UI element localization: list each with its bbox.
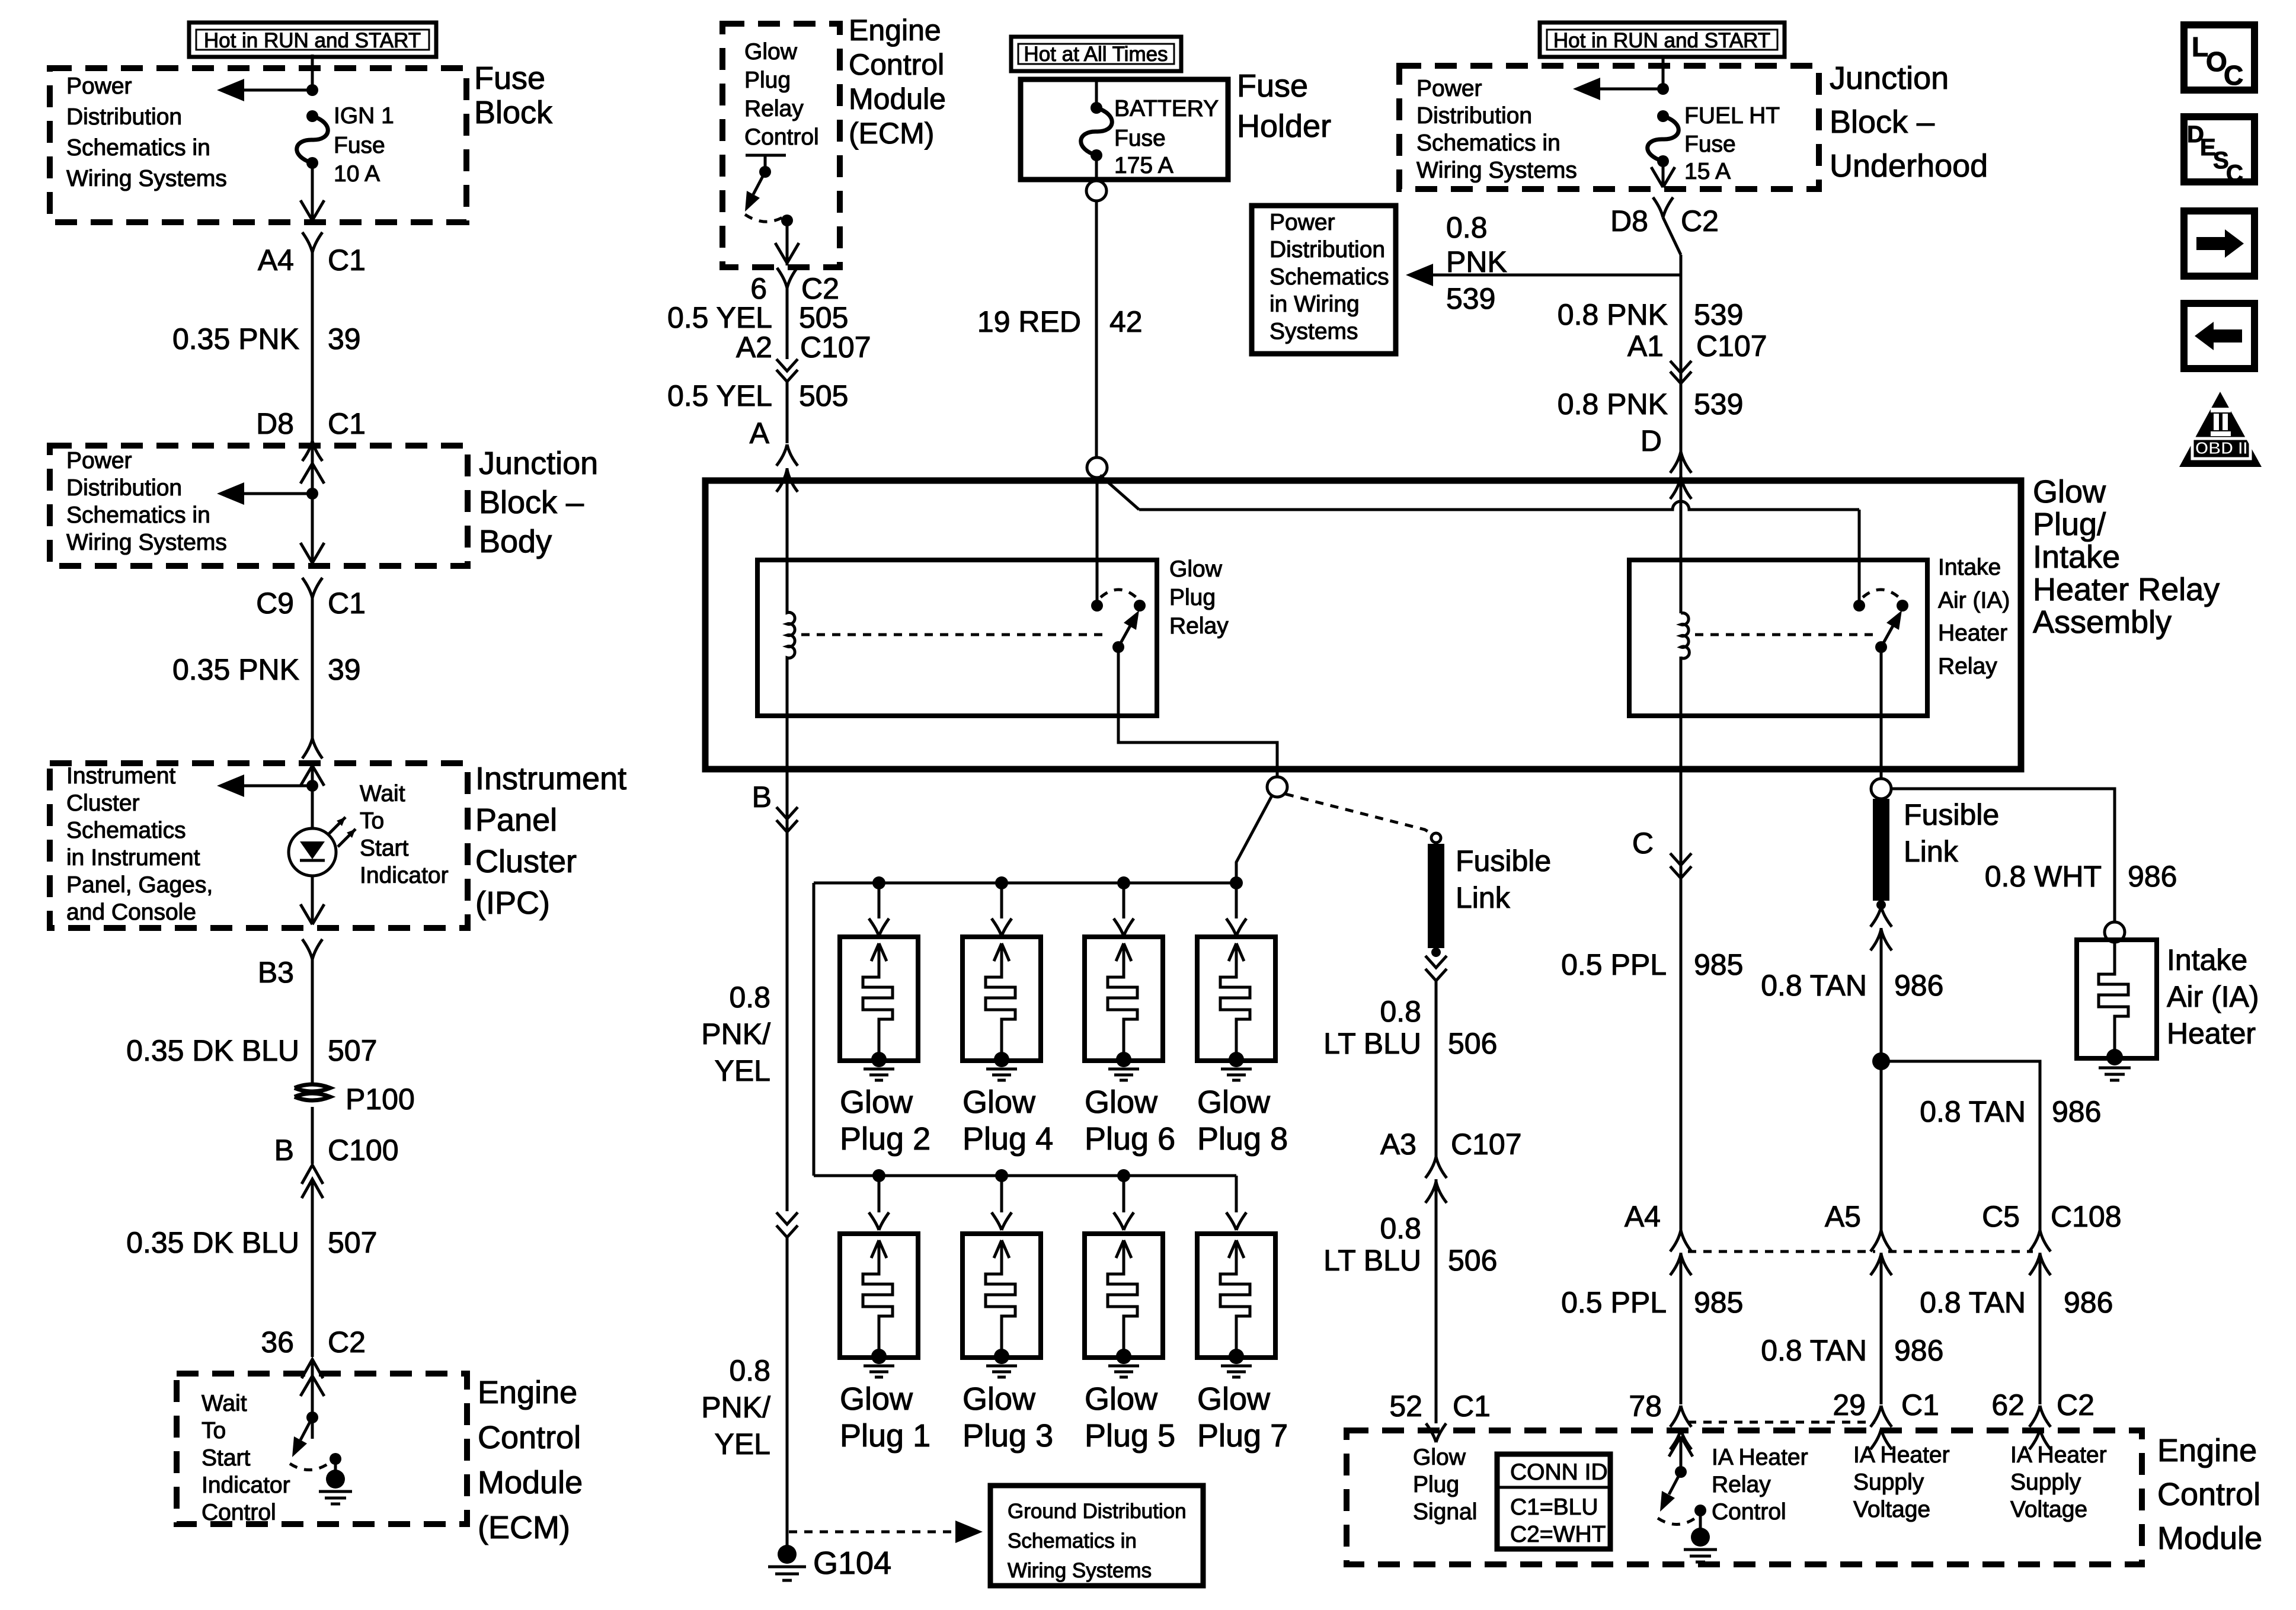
- connector C1 pin D8: [256, 407, 366, 461]
- svg-text:986: 986: [2064, 1286, 2113, 1319]
- svg-text:Systems: Systems: [1269, 319, 1358, 344]
- wire: diagonal from glow relay output to plug bus: [1236, 796, 1272, 883]
- svg-text:Ground Distribution: Ground Distribution: [1008, 1500, 1187, 1523]
- svg-text:and Console: and Console: [66, 900, 196, 925]
- svg-text:Indicator: Indicator: [202, 1473, 290, 1498]
- svg-text:PNK/: PNK/: [701, 1017, 770, 1051]
- svg-text:A1: A1: [1627, 329, 1664, 363]
- grommet P100: [295, 1083, 415, 1116]
- svg-text:505: 505: [799, 301, 848, 334]
- svg-text:Air (IA): Air (IA): [1938, 588, 2010, 613]
- svg-text:A: A: [750, 417, 770, 450]
- glow plug relay inner box: [757, 560, 1157, 716]
- svg-text:C100: C100: [328, 1134, 399, 1167]
- svg-text:Holder: Holder: [1237, 108, 1331, 144]
- text: Glow Plug Relay Control: [744, 39, 819, 150]
- glow plug 6: [1085, 883, 1175, 1157]
- svg-text:A5: A5: [1825, 1200, 1861, 1233]
- connector into IPC: [302, 738, 322, 758]
- svg-text:0.8: 0.8: [1380, 995, 1421, 1028]
- indicator LED: Wait To Start Indicator: [289, 781, 449, 888]
- svg-text:Plug 4: Plug 4: [962, 1121, 1053, 1157]
- svg-text:Plug 3: Plug 3: [962, 1418, 1053, 1454]
- svg-text:PNK: PNK: [1446, 245, 1507, 279]
- svg-text:0.35 DK BLU: 0.35 DK BLU: [126, 1034, 299, 1067]
- node: dot IPC: [306, 780, 318, 792]
- wire through junction block body with arrows: [300, 448, 324, 563]
- ground in ECM bottom right: [1684, 1528, 1717, 1562]
- Glow Plug Relay label: [1169, 556, 1229, 639]
- svg-text:Junction: Junction: [479, 446, 598, 481]
- svg-text:Underhood: Underhood: [1830, 148, 1988, 184]
- wire 19 RED 42: [977, 201, 1143, 457]
- svg-text:Relay: Relay: [1169, 613, 1229, 639]
- svg-text:A3: A3: [1380, 1128, 1416, 1161]
- svg-text:39: 39: [328, 322, 361, 356]
- icon OBD II triangle: [2179, 392, 2262, 467]
- svg-text:Schematics: Schematics: [1269, 264, 1389, 290]
- svg-text:Voltage: Voltage: [2010, 1497, 2087, 1522]
- icon DESC: [2184, 117, 2255, 187]
- wire: junction down to glow relay switch: [1096, 478, 1099, 600]
- dashed connector line C1: [1688, 1421, 1875, 1424]
- Instrument Panel Cluster dashed box: [50, 763, 468, 928]
- coil: IA heater relay: [1681, 613, 1689, 658]
- connector pin B3: [258, 939, 322, 1019]
- svg-text:C1: C1: [328, 407, 366, 440]
- svg-text:C107: C107: [800, 331, 871, 364]
- svg-text:0.35 DK BLU: 0.35 DK BLU: [126, 1226, 299, 1259]
- wire 0.35 PNK 39: [172, 320, 361, 415]
- svg-text:Fuse: Fuse: [474, 60, 545, 96]
- svg-text:986: 986: [1894, 1334, 1943, 1367]
- assembly label: [2033, 474, 2220, 640]
- svg-text:in Wiring: in Wiring: [1269, 292, 1360, 317]
- svg-text:Fusible: Fusible: [1456, 844, 1551, 878]
- wire: power box to junction block underhood: [1662, 56, 1665, 89]
- ground in ECM left: [319, 1470, 352, 1504]
- svg-text:Intake: Intake: [2167, 943, 2247, 977]
- pin B below assembly: [752, 780, 798, 832]
- svg-text:Control: Control: [2157, 1477, 2260, 1512]
- svg-text:Fuse: Fuse: [1684, 132, 1736, 157]
- wire 0.8 LT BLU 506: [1323, 981, 1497, 1157]
- svg-text:Schematics: Schematics: [66, 818, 186, 843]
- svg-text:C107: C107: [1696, 329, 1767, 363]
- node dots on row1 bus: [872, 876, 885, 889]
- Intake Air (IA) Heater label: [2167, 943, 2259, 1050]
- wire: IA relay output: [1880, 647, 1883, 779]
- svg-text:0.8 WHT: 0.8 WHT: [1985, 860, 2102, 893]
- pin 29 C1: [1833, 1388, 1939, 1449]
- node dot under link 2: [1876, 900, 1886, 910]
- svg-text:Control: Control: [478, 1420, 581, 1455]
- fuse BATTERY Fuse 175 A: [1081, 79, 1219, 180]
- wire: 0.8 PNK 539 left arrow branch: [1406, 211, 1681, 315]
- svg-text:Hot at All Times: Hot at All Times: [1024, 43, 1168, 66]
- connector C2 pin D8: [1610, 197, 1719, 1231]
- svg-text:0.35 PNK: 0.35 PNK: [172, 653, 299, 686]
- svg-text:C: C: [1632, 827, 1654, 860]
- svg-text:0.8: 0.8: [729, 981, 770, 1014]
- svg-text:Junction: Junction: [1830, 60, 1949, 96]
- ECM left dashed box: [177, 1374, 467, 1524]
- svg-text:539: 539: [1694, 388, 1743, 421]
- power source box: Hot in RUN and START (right): [1540, 23, 1785, 57]
- connector C107 pin A3: [1380, 1128, 1522, 1423]
- svg-text:CONN ID: CONN ID: [1510, 1459, 1608, 1485]
- svg-text:Plug 7: Plug 7: [1197, 1418, 1288, 1454]
- svg-text:B: B: [752, 780, 772, 814]
- svg-text:Plug: Plug: [1413, 1472, 1459, 1497]
- Power Distribution solid box (mid): [1252, 206, 1396, 354]
- svg-text:IGN 1: IGN 1: [334, 103, 394, 129]
- svg-text:Relay: Relay: [744, 96, 804, 121]
- svg-text:Plug: Plug: [1169, 585, 1216, 610]
- wire 0.5 PPL 985 (second): [1561, 1286, 1743, 1319]
- svg-text:Plug 1: Plug 1: [840, 1418, 930, 1454]
- connector C107 pin A1: [1627, 329, 1767, 383]
- wire: branch to C5 column: [1881, 1061, 2040, 1231]
- svg-text:0.5 PPL: 0.5 PPL: [1561, 948, 1667, 981]
- svg-text:IA Heater: IA Heater: [2010, 1442, 2107, 1468]
- Intake Air (IA) Heater Relay label: [1938, 555, 2010, 679]
- glow plug 3: [962, 1176, 1053, 1454]
- node: dot junction body: [306, 488, 318, 500]
- IA heater relay inner box: [1629, 560, 1927, 716]
- svg-text:C2: C2: [2057, 1388, 2094, 1422]
- glow plug 2: [840, 883, 930, 1157]
- svg-text:Block: Block: [474, 95, 553, 130]
- svg-text:Block –: Block –: [479, 485, 584, 520]
- wire 0.5 YEL 505: [667, 301, 848, 334]
- svg-text:Hot in RUN and START: Hot in RUN and START: [204, 29, 421, 52]
- svg-text:Plug/: Plug/: [2033, 507, 2106, 542]
- svg-text:507: 507: [328, 1226, 377, 1259]
- text: Instrument Cluster Schematics in Instrument Panel, Gages, and Console: [66, 763, 213, 925]
- switch: wait to start indicator control driver: [290, 1376, 341, 1479]
- svg-text:Glow: Glow: [840, 1381, 913, 1417]
- connector C1 pin C9: [256, 578, 366, 652]
- node: IA relay output circle: [1871, 779, 1891, 799]
- svg-text:Link: Link: [1456, 881, 1511, 914]
- node: dot underhood: [1657, 83, 1669, 95]
- svg-text:10 A: 10 A: [334, 161, 380, 187]
- svg-text:507: 507: [328, 1034, 377, 1067]
- svg-text:C1=BLU: C1=BLU: [1510, 1494, 1598, 1520]
- svg-text:Distribution: Distribution: [66, 104, 182, 130]
- glow plug 8: [1197, 883, 1288, 1157]
- glow plug 7: [1197, 1176, 1288, 1454]
- svg-text:Panel, Gages,: Panel, Gages,: [66, 872, 213, 898]
- svg-text:0.8: 0.8: [1446, 211, 1488, 244]
- wire 0.35 PNK 39 (second): [172, 652, 361, 738]
- svg-text:Distribution: Distribution: [66, 475, 182, 501]
- wire with down arrow to box edge: [300, 163, 324, 220]
- svg-text:C2=WHT: C2=WHT: [1510, 1522, 1606, 1547]
- svg-text:986: 986: [1894, 969, 1943, 1002]
- svg-text:0.5 YEL: 0.5 YEL: [667, 301, 772, 334]
- ECM top-middle dashed box: [722, 24, 840, 267]
- svg-text:Assembly: Assembly: [2033, 604, 2172, 640]
- svg-text:39: 39: [328, 653, 361, 686]
- svg-text:Schematics in: Schematics in: [66, 502, 210, 528]
- svg-text:0.5 YEL: 0.5 YEL: [667, 379, 772, 412]
- svg-text:Voltage: Voltage: [1853, 1497, 1930, 1522]
- glow plug 4: [962, 883, 1053, 1157]
- svg-text:OBD II: OBD II: [2195, 439, 2248, 458]
- icon arrow right: [2184, 211, 2255, 276]
- svg-text:B: B: [274, 1134, 294, 1167]
- text: Power Distribution Schematics in Wiring Systems (underhood): [1416, 76, 1577, 183]
- svg-text:Schematics in: Schematics in: [66, 135, 210, 161]
- dashed wire to ground distribution note: [789, 1521, 983, 1543]
- svg-text:C: C: [2226, 161, 2243, 187]
- wire 0.35 DK BLU 507 (second): [126, 1226, 377, 1357]
- wire 0.8 LT BLU 506 (second): [1323, 1212, 1497, 1277]
- node dots on row2 bus: [872, 1169, 885, 1182]
- svg-text:Hot in RUN and START: Hot in RUN and START: [1553, 29, 1770, 52]
- Fuse Holder box: [1021, 79, 1228, 180]
- svg-text:Glow: Glow: [1197, 1381, 1271, 1417]
- svg-text:Wait: Wait: [202, 1391, 247, 1416]
- svg-text:Intake: Intake: [1938, 555, 2001, 580]
- svg-text:Glow: Glow: [840, 1084, 913, 1120]
- svg-text:Control: Control: [849, 48, 944, 81]
- svg-text:Control: Control: [1712, 1499, 1786, 1525]
- svg-text:Fusible: Fusible: [1904, 798, 1999, 831]
- svg-text:Glow: Glow: [744, 39, 798, 65]
- svg-text:0.8: 0.8: [729, 1354, 770, 1387]
- svg-text:(ECM): (ECM): [478, 1510, 570, 1545]
- wire B column 0.8 PNK/YEL: [701, 716, 787, 1211]
- svg-text:C5: C5: [1982, 1200, 2020, 1233]
- text: IA Heater Supply Voltage (1): [1853, 1442, 1950, 1522]
- icon arrow left: [2184, 303, 2255, 369]
- svg-text:Block –: Block –: [1830, 104, 1934, 140]
- svg-text:Link: Link: [1904, 835, 1959, 868]
- svg-text:Glow: Glow: [1169, 556, 1223, 582]
- connector C2 pin 6: [750, 268, 839, 359]
- svg-text:Start: Start: [360, 836, 409, 861]
- wire 0.8 TAN 986 (C5 column lower): [1920, 1286, 2113, 1319]
- svg-text:Engine: Engine: [2157, 1433, 2257, 1468]
- svg-text:0.8: 0.8: [1380, 1212, 1421, 1245]
- svg-text:D8: D8: [256, 407, 294, 440]
- svg-text:A4: A4: [1625, 1200, 1661, 1233]
- svg-text:Plug 8: Plug 8: [1197, 1121, 1288, 1157]
- glow plug top bus row 1: [814, 882, 1236, 885]
- svg-text:BATTERY: BATTERY: [1114, 96, 1219, 121]
- connector pin A into assembly: [750, 417, 798, 560]
- ECM dashed box bottom right: [1347, 1430, 2142, 1564]
- switch: glow plug relay control driver: [745, 155, 799, 265]
- pin 36 C2: [261, 1326, 366, 1439]
- svg-text:Plug: Plug: [744, 68, 791, 93]
- svg-text:Plug 6: Plug 6: [1085, 1121, 1175, 1157]
- glow plug bus row 2: [814, 1174, 1236, 1177]
- svg-text:Glow: Glow: [1413, 1445, 1466, 1470]
- svg-text:Schematics in: Schematics in: [1008, 1529, 1137, 1553]
- svg-text:Air (IA): Air (IA): [2167, 980, 2259, 1013]
- node: TAN junction dot: [1872, 1052, 1890, 1070]
- svg-text:YEL: YEL: [714, 1054, 770, 1087]
- svg-text:C1: C1: [1901, 1388, 1939, 1422]
- node dot under link 1: [1431, 948, 1441, 957]
- text: IA Heater Relay Control: [1712, 1445, 1808, 1525]
- svg-text:C1: C1: [1453, 1390, 1491, 1423]
- svg-text:To: To: [202, 1418, 226, 1443]
- svg-text:Glow: Glow: [962, 1381, 1036, 1417]
- svg-text:506: 506: [1448, 1027, 1497, 1060]
- dashed linkage glow relay: [801, 633, 1109, 636]
- switch: IA heater relay control driver: [1658, 1436, 1706, 1529]
- svg-text:986: 986: [2128, 860, 2177, 893]
- terminal circle IA heater: [2105, 922, 2125, 942]
- wire 0.8 PNK 539: [1558, 298, 1744, 331]
- svg-text:Fuse: Fuse: [1237, 68, 1308, 104]
- svg-text:P100: P100: [346, 1083, 415, 1116]
- svg-text:Distribution: Distribution: [1269, 237, 1385, 263]
- wire: left arrow branch in junction block body: [217, 482, 312, 505]
- text: IA Heater Supply Voltage (2): [2010, 1442, 2107, 1522]
- svg-text:Supply: Supply: [2010, 1470, 2081, 1495]
- svg-text:986: 986: [2052, 1095, 2101, 1128]
- wire 0.35 DK BLU 507: [126, 1019, 377, 1084]
- coil: glow plug relay: [787, 560, 795, 716]
- svg-text:175 A: 175 A: [1114, 153, 1173, 178]
- wire: left arrow branch in IPC: [217, 774, 312, 797]
- svg-text:Plug 2: Plug 2: [840, 1121, 930, 1157]
- svg-text:0.8 PNK: 0.8 PNK: [1558, 388, 1668, 421]
- text: Glow Plug Signal: [1413, 1445, 1477, 1525]
- svg-text:19 RED: 19 RED: [977, 305, 1081, 338]
- svg-text:Start: Start: [202, 1445, 251, 1471]
- wire 0.8 TAN 986 (A column lower): [1761, 1334, 1943, 1367]
- pin C below assembly: [1632, 827, 1691, 878]
- svg-text:B3: B3: [258, 956, 294, 989]
- svg-text:C1: C1: [328, 244, 366, 277]
- svg-text:IA Heater: IA Heater: [1853, 1442, 1950, 1468]
- svg-text:C2: C2: [1681, 204, 1719, 238]
- svg-text:62: 62: [1991, 1388, 2025, 1422]
- svg-text:G104: G104: [813, 1545, 891, 1581]
- svg-text:Cluster: Cluster: [66, 790, 140, 816]
- svg-text:Schematics in: Schematics in: [1416, 130, 1560, 156]
- wire: diagonal from junction to relay bus: [1100, 475, 1139, 510]
- svg-text:Plug 5: Plug 5: [1085, 1418, 1175, 1454]
- svg-text:Engine: Engine: [478, 1375, 577, 1410]
- svg-text:C107: C107: [1451, 1128, 1522, 1161]
- wire 0.8 TAN 986 (C5 column upper): [1920, 1095, 2101, 1128]
- glow plug 5: [1085, 1176, 1175, 1454]
- wire: bus drop to IA relay switch: [1858, 510, 1861, 600]
- svg-text:52: 52: [1389, 1390, 1422, 1423]
- pin 78: [1629, 1390, 1691, 1449]
- svg-text:Intake: Intake: [2033, 539, 2120, 575]
- wire: relay feed bus with hop over D wire: [1139, 501, 1859, 510]
- svg-text:42: 42: [1109, 305, 1143, 338]
- svg-text:0.5 PPL: 0.5 PPL: [1561, 1286, 1667, 1319]
- wire: power box to fuse block: [311, 55, 314, 90]
- terminal circle under fuse holder: [1086, 181, 1107, 201]
- svg-text:C9: C9: [256, 587, 294, 620]
- svg-text:36: 36: [261, 1326, 294, 1359]
- wire 0.5 PPL 985: [1561, 948, 1743, 981]
- connector C1 pin A4: [258, 232, 366, 320]
- svg-text:Module: Module: [849, 82, 946, 116]
- svg-text:Instrument: Instrument: [66, 763, 175, 789]
- wire: glow relay output: [1118, 647, 1277, 777]
- svg-text:Wiring Systems: Wiring Systems: [1008, 1559, 1152, 1582]
- svg-text:Power: Power: [1416, 76, 1482, 101]
- svg-text:29: 29: [1833, 1388, 1866, 1422]
- connector C108 pin C5: [1982, 1200, 2121, 1404]
- svg-text:Glow: Glow: [1197, 1084, 1271, 1120]
- svg-text:Indicator: Indicator: [360, 863, 449, 888]
- switch: glow plug relay contacts: [1091, 590, 1146, 653]
- svg-text:PNK/: PNK/: [701, 1391, 770, 1424]
- switch: IA heater relay contacts: [1853, 590, 1908, 653]
- svg-text:D: D: [1641, 424, 1662, 457]
- svg-text:0.35 PNK: 0.35 PNK: [172, 322, 299, 356]
- svg-text:0.8 TAN: 0.8 TAN: [1920, 1286, 2026, 1319]
- svg-text:IA Heater: IA Heater: [1712, 1445, 1808, 1470]
- svg-text:Relay: Relay: [1712, 1472, 1771, 1497]
- svg-text:0.8 TAN: 0.8 TAN: [1761, 1334, 1867, 1367]
- svg-text:985: 985: [1694, 948, 1743, 981]
- text: Power Distribution Schematics in Wiring Systems: [66, 73, 227, 191]
- ground G104: [768, 1545, 891, 1581]
- node: glow relay output circle: [1267, 777, 1287, 797]
- dashed wire from relay output to fusible link: [1285, 794, 1434, 835]
- svg-text:15 A: 15 A: [1684, 159, 1731, 184]
- wire 0.5 YEL 505 (second): [667, 379, 848, 412]
- assembly outer box: [705, 481, 2021, 769]
- svg-text:Glow: Glow: [1085, 1084, 1158, 1120]
- Ground Distribution Schematics in Wiring Systems box: [990, 1486, 1203, 1586]
- wire 0.8 WHT 986: [1891, 789, 2177, 922]
- svg-text:0.8 TAN: 0.8 TAN: [1761, 969, 1867, 1002]
- svg-text:Glow: Glow: [1085, 1381, 1158, 1417]
- svg-text:Module: Module: [478, 1465, 583, 1500]
- svg-text:(IPC): (IPC): [475, 885, 550, 921]
- svg-text:Power: Power: [1269, 210, 1335, 235]
- text: Power Distribution Schematics in Wiring Systems (body): [66, 448, 227, 555]
- svg-text:Glow: Glow: [2033, 474, 2106, 510]
- node: battery junction circle: [1087, 457, 1107, 478]
- svg-text:Fuse: Fuse: [1114, 126, 1166, 151]
- pin 52 C1: [1389, 1390, 1491, 1442]
- wire 0.8 PNK 539 (second): [1558, 388, 1744, 421]
- svg-text:Distribution: Distribution: [1416, 103, 1532, 129]
- svg-text:LT BLU: LT BLU: [1323, 1027, 1421, 1060]
- svg-text:Control: Control: [744, 124, 819, 150]
- Hot at All Times power box: [1011, 37, 1181, 71]
- pin 62 C2: [1991, 1388, 2094, 1449]
- svg-text:C2: C2: [328, 1326, 366, 1359]
- connector chevrons under link 1: [1425, 956, 1447, 981]
- svg-text:506: 506: [1448, 1244, 1497, 1277]
- svg-text:A4: A4: [258, 244, 294, 277]
- connector on B wire: [776, 1212, 798, 1237]
- wire with down arrow to underhood edge: [1651, 161, 1675, 187]
- connector C100 pin B: [274, 1107, 399, 1256]
- Intake Air (IA) Heater box: [2077, 940, 2157, 1058]
- svg-text:Control: Control: [202, 1500, 276, 1525]
- Engine Control Module label: [2157, 1433, 2262, 1556]
- svg-text:YEL: YEL: [714, 1427, 770, 1461]
